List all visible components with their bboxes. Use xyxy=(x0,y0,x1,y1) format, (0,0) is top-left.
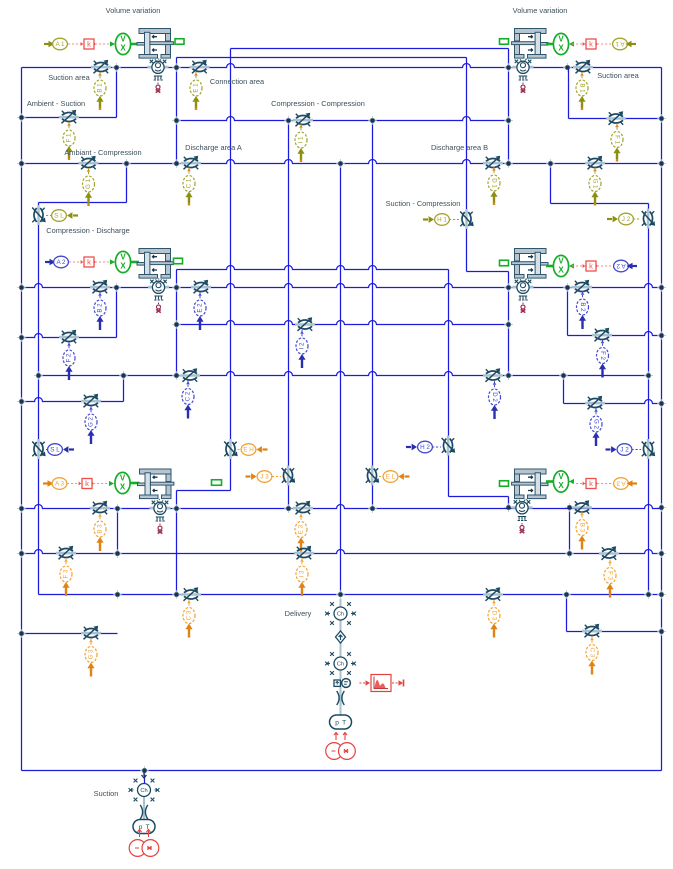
wire right bus xyxy=(661,68,663,771)
wire compression manifold row xyxy=(39,372,649,376)
svg-text:k: k xyxy=(589,479,593,488)
svg-text:k: k xyxy=(87,39,91,48)
svg-text:X: X xyxy=(558,43,564,52)
wire link row268 xyxy=(177,266,449,270)
wire chamber row2 xyxy=(22,284,662,288)
junction n55 xyxy=(17,629,26,638)
VX1 port xyxy=(131,43,139,46)
svg-text:k: k xyxy=(87,257,91,266)
svg-text:E 3: E 3 xyxy=(298,524,305,534)
svg-text:J 2: J 2 xyxy=(622,216,631,223)
junction n13 xyxy=(172,159,181,168)
wire link row490 xyxy=(177,490,231,492)
valve suction area R xyxy=(573,60,593,74)
svg-text:G 1: G 1 xyxy=(591,179,598,189)
arrowhead to VX3R xyxy=(569,479,574,484)
arrowhead to VX3 xyxy=(109,481,114,486)
svg-text:D 3: D 3 xyxy=(490,611,497,621)
junction n1 xyxy=(112,63,121,72)
atmosphere source suction atmosphere xyxy=(129,830,159,857)
wire link v116 a xyxy=(116,68,118,118)
orifice suction orifice xyxy=(140,804,148,820)
signal source G3 xyxy=(85,639,97,677)
wire ambient bus xyxy=(230,49,232,491)
piston cylinder cyl1L xyxy=(137,29,173,61)
wire compression row2 xyxy=(177,321,509,325)
wire v508 top xyxy=(508,49,510,164)
signal source J2o xyxy=(607,213,633,225)
valve suction area L xyxy=(91,60,111,74)
valve compression manifold 2L xyxy=(180,368,200,382)
valve suction manifold 3M xyxy=(294,546,314,560)
wire bottom bus xyxy=(22,770,662,772)
svg-text:F 1: F 1 xyxy=(66,133,73,142)
valve ambiant-compression 2 xyxy=(81,394,101,408)
svg-text:H 2: H 2 xyxy=(420,444,430,451)
wire delivery bus xyxy=(340,164,342,596)
junction n21 xyxy=(504,283,513,292)
signal source I1 xyxy=(295,124,307,162)
signal link k2R-VX xyxy=(572,265,586,267)
signal source H2 xyxy=(406,441,432,453)
svg-text:S L: S L xyxy=(50,446,60,453)
junction n11 xyxy=(17,159,26,168)
signal link A2-k xyxy=(69,261,83,263)
valve el valve xyxy=(366,466,380,486)
junction n19 xyxy=(112,283,121,292)
wire row401 L xyxy=(22,398,124,402)
junction n40 xyxy=(368,504,377,513)
gain block k3 xyxy=(79,479,95,489)
signal source J3 xyxy=(246,471,272,483)
arrowhead to VX1 xyxy=(110,41,115,46)
wire link row203 xyxy=(551,203,649,205)
wire row403 R xyxy=(564,400,662,404)
wire link v126 xyxy=(126,164,128,203)
svg-text:X: X xyxy=(120,261,126,270)
wire link row496 xyxy=(449,496,509,498)
valve suction-compression xyxy=(460,209,474,229)
signal source C3R xyxy=(586,637,598,675)
svg-text:B 2: B 2 xyxy=(579,302,586,312)
junction n34 xyxy=(17,397,26,406)
wire link v123 xyxy=(123,376,125,402)
junction n32 xyxy=(559,371,568,380)
signal source D2 xyxy=(489,381,501,419)
wire suction manifold row3 xyxy=(22,550,662,554)
gain block k2 xyxy=(81,257,97,267)
svg-text:Ch: Ch xyxy=(337,661,344,667)
wire suction chain links xyxy=(143,797,145,820)
junction n6 xyxy=(657,114,666,123)
signal link H1 link xyxy=(449,219,459,221)
signal source A3 xyxy=(52,478,67,490)
signal source C1 xyxy=(183,168,195,206)
wire link v116 c xyxy=(117,509,119,554)
signal source F2 xyxy=(63,342,75,380)
valve discharge area A xyxy=(181,156,201,170)
signal source B3 xyxy=(94,513,106,551)
wire delivery manifold row xyxy=(39,594,662,596)
svg-text:B 3: B 3 xyxy=(578,523,585,533)
signal link k3-VX xyxy=(93,483,111,485)
junction n23 xyxy=(657,283,666,292)
signal link A3R-k xyxy=(597,483,613,485)
wire ambient-suction row R xyxy=(569,118,662,120)
signal source B2 xyxy=(94,292,106,330)
valve connection area 2 xyxy=(191,280,211,294)
junction n14 xyxy=(336,159,345,168)
svg-text:V: V xyxy=(558,256,564,265)
junction n12 xyxy=(122,159,131,168)
svg-text:F 2: F 2 xyxy=(66,353,73,362)
signal source F3 xyxy=(60,558,72,596)
svg-text:Suction area: Suction area xyxy=(597,71,639,80)
pneumatic node Delivery chamber 2 xyxy=(325,652,356,675)
wire top link A xyxy=(231,48,509,50)
junction n35 xyxy=(657,399,666,408)
VX2 port xyxy=(131,261,139,264)
signal source E2 xyxy=(194,292,206,330)
svg-text:F 2: F 2 xyxy=(599,351,606,360)
pressure-temperature source suction pT source xyxy=(133,820,155,834)
junction n30 xyxy=(172,371,181,380)
valve connection area xyxy=(190,60,210,74)
signal source A1R xyxy=(613,38,628,50)
valve j3 valve xyxy=(282,466,296,486)
wire v568 xyxy=(568,68,570,119)
junction n27 xyxy=(17,333,26,342)
svg-text:X: X xyxy=(558,481,564,490)
junction n8 xyxy=(284,116,293,125)
wire link v176 top xyxy=(176,58,178,164)
valve ambiant-compression xyxy=(79,156,99,170)
input arrow A3R in xyxy=(633,482,638,484)
signal link k1R-VX xyxy=(572,43,586,45)
signal source D1 xyxy=(488,167,500,205)
pressure-temperature source delivery pT source xyxy=(330,715,352,729)
svg-text:H 1: H 1 xyxy=(437,216,447,223)
input arrow A2 in xyxy=(45,261,50,263)
piston cylinder cyl3R xyxy=(512,469,548,501)
input arrow A1 in xyxy=(44,43,49,45)
signal source F1 xyxy=(63,122,75,160)
signal source J2b xyxy=(606,444,632,456)
signal source H1 xyxy=(423,214,449,226)
junction n10 xyxy=(504,116,513,125)
signal source F1R xyxy=(611,124,623,162)
valve ambient bus valve xyxy=(224,439,238,459)
VX3R port xyxy=(546,480,553,483)
wire v448 xyxy=(448,270,450,497)
signal source E1 xyxy=(190,72,202,110)
svg-text:T: T xyxy=(342,719,346,726)
signal link A1R-k xyxy=(597,43,613,45)
check valve delivery check valve xyxy=(336,630,346,644)
svg-text:Delivery: Delivery xyxy=(285,609,312,618)
signal link EL link xyxy=(379,476,383,478)
pneumatic node Suction chamber xyxy=(129,779,160,802)
svg-text:E H: E H xyxy=(243,446,254,453)
wire compression-discharge bus L xyxy=(38,203,40,595)
valve suction area 3L xyxy=(90,501,110,515)
valve connection area 3 xyxy=(293,501,313,515)
wire ambient-suction row xyxy=(22,117,117,119)
signal link k1-VX xyxy=(95,43,112,45)
svg-text:X: X xyxy=(120,43,126,52)
pneumatic chamber Q1R xyxy=(513,59,534,92)
piston cylinder cyl2R xyxy=(512,249,548,281)
svg-text:A 2: A 2 xyxy=(56,259,66,266)
junction n56 xyxy=(140,766,149,775)
svg-text:C 3: C 3 xyxy=(588,648,595,658)
svg-text:B 3: B 3 xyxy=(97,524,104,534)
valve compression-discharge L xyxy=(32,205,46,225)
velocity-displacement transducer VX2 xyxy=(115,251,130,272)
wire link v116 b xyxy=(116,288,118,338)
signal link A3-k xyxy=(67,483,81,485)
signal source E3 xyxy=(295,514,307,552)
junction n53 xyxy=(657,590,666,599)
junction n2 xyxy=(172,63,181,72)
svg-text:F 3: F 3 xyxy=(606,571,613,580)
svg-text:Ambiant - Compression: Ambiant - Compression xyxy=(64,148,141,157)
signal source EH xyxy=(241,444,267,456)
svg-text:Suction area: Suction area xyxy=(48,73,90,82)
pneumatic chamber Q2 xyxy=(148,279,169,312)
signal link J2b link xyxy=(632,449,642,451)
signal source SLb xyxy=(48,444,74,456)
svg-text:Discharge area A: Discharge area A xyxy=(185,143,242,152)
signal source F2R xyxy=(597,340,609,378)
junction n49 xyxy=(172,590,181,599)
junction n15 xyxy=(504,159,513,168)
signal source D3 xyxy=(488,600,500,638)
valve compression-discharge 2L xyxy=(32,439,46,459)
signal source B1 xyxy=(94,72,106,110)
wire row337 L xyxy=(22,334,117,338)
signal source SL xyxy=(52,210,78,222)
wire v569 xyxy=(569,508,571,554)
suction feed arrow xyxy=(142,772,147,778)
junction n28 xyxy=(34,371,43,380)
wire suction-compression bus xyxy=(466,58,468,272)
pneumatic chamber Q1 xyxy=(148,59,169,92)
svg-text:C 2: C 2 xyxy=(185,391,192,401)
signal source A3R xyxy=(614,478,629,490)
valve compression-discharge 2R xyxy=(642,439,656,459)
signal link J2o link xyxy=(633,218,641,220)
svg-text:C 3: C 3 xyxy=(186,610,193,620)
signal source G2R xyxy=(590,408,602,446)
svg-text:A 1: A 1 xyxy=(615,40,625,47)
input arrow A3 in xyxy=(43,482,48,484)
junction n22 xyxy=(563,283,572,292)
junction n16 xyxy=(546,159,555,168)
VX3 port xyxy=(130,482,140,485)
svg-text:V: V xyxy=(120,252,126,261)
junction n46 xyxy=(565,549,574,558)
svg-text:V: V xyxy=(558,472,564,481)
valve suction-compression 2 xyxy=(442,436,456,456)
wire v550 xyxy=(550,164,552,204)
port block p2c xyxy=(500,260,509,266)
velocity-displacement transducer VX1 xyxy=(115,33,130,54)
junction n3 xyxy=(504,63,513,72)
velocity-displacement transducer VX1R xyxy=(553,33,568,54)
svg-text:Volume variation: Volume variation xyxy=(513,6,568,15)
signal link SLb link xyxy=(46,449,48,451)
junction n20 xyxy=(172,283,181,292)
signal source C3 xyxy=(183,600,195,638)
svg-text:k: k xyxy=(85,479,89,488)
valve discharge area B xyxy=(483,156,503,170)
valve compression-compression xyxy=(293,113,313,127)
VX2R port xyxy=(546,265,553,268)
signal link EH link xyxy=(238,449,242,451)
signal link H2 link xyxy=(432,446,441,448)
arrowhead to VX2R xyxy=(569,263,574,268)
port block p3c xyxy=(500,481,509,487)
junction n7 xyxy=(172,116,181,125)
junction n36 xyxy=(17,504,26,513)
svg-text:D 2: D 2 xyxy=(491,392,498,402)
signal source EL xyxy=(383,471,409,483)
valve suction area 2R xyxy=(572,280,592,294)
signal link SL link xyxy=(46,215,52,217)
wire v508 mid xyxy=(508,272,510,376)
valve ambient-suction 2 xyxy=(59,330,79,344)
piston cylinder cyl3L xyxy=(138,469,174,501)
svg-text:F 1: F 1 xyxy=(613,135,620,144)
valve delivery manifold 3R xyxy=(483,587,503,601)
valve suction manifold 3L xyxy=(56,546,76,560)
signal source B1R xyxy=(576,72,588,110)
port block p1b xyxy=(175,39,184,45)
wire row335 R xyxy=(568,332,662,336)
junction n47 xyxy=(657,549,666,558)
junction n4 xyxy=(563,63,572,72)
junction n45 xyxy=(113,549,122,558)
signal source A1 xyxy=(53,38,68,50)
gain block k3R xyxy=(583,479,599,489)
svg-text:G 3: G 3 xyxy=(88,649,95,659)
svg-text:V: V xyxy=(120,34,126,43)
wire row631 R xyxy=(567,631,662,633)
flow sensor delivery sensor xyxy=(334,679,350,688)
svg-text:Discharge area B: Discharge area B xyxy=(431,143,488,152)
wire v567 xyxy=(567,288,569,336)
wire ambient-compression row xyxy=(22,160,662,164)
velocity-displacement transducer VX2R xyxy=(553,255,568,276)
svg-text:k: k xyxy=(589,39,593,48)
input arrow A2R in xyxy=(633,265,638,267)
svg-text:k: k xyxy=(589,261,593,270)
svg-text:Compression - Discharge: Compression - Discharge xyxy=(46,226,129,235)
gain block k2R xyxy=(583,261,599,271)
valve ambiant-compression R xyxy=(585,156,605,170)
gain block k1 xyxy=(81,39,97,49)
valve delivery manifold 3L xyxy=(181,587,201,601)
junction n29 xyxy=(119,371,128,380)
wire suction area row xyxy=(22,64,662,68)
svg-text:J 3: J 3 xyxy=(260,473,269,480)
svg-text:A 3: A 3 xyxy=(55,480,65,487)
svg-text:D 1: D 1 xyxy=(490,178,497,188)
junction n54 xyxy=(657,627,666,636)
junction n42 xyxy=(565,503,574,512)
VX1R port xyxy=(546,43,553,46)
signal source G1 xyxy=(83,168,95,206)
wire v563 xyxy=(563,376,565,404)
svg-text:G 2: G 2 xyxy=(88,416,95,426)
junction n43 xyxy=(657,503,666,512)
svg-text:E L: E L xyxy=(386,473,396,480)
junction n24 xyxy=(172,320,181,329)
valve suction manifold 3R xyxy=(599,546,619,560)
svg-text:Volume variation: Volume variation xyxy=(106,6,161,15)
wire suction drop xyxy=(144,771,146,784)
valve ambient-suction xyxy=(59,110,79,124)
svg-text:V: V xyxy=(120,473,126,482)
junction n50 xyxy=(336,590,345,599)
svg-text:Ambient - Suction: Ambient - Suction xyxy=(27,99,85,108)
svg-text:I 1: I 1 xyxy=(298,136,305,143)
junction n51 xyxy=(562,590,571,599)
pneumatic chamber Q2R xyxy=(513,279,534,312)
signal source A2 xyxy=(54,256,69,268)
signal source A2R xyxy=(614,260,629,272)
wire compression-compression row xyxy=(177,117,509,121)
orifice delivery orifice xyxy=(337,690,345,706)
signal link A2R-k xyxy=(597,265,613,267)
svg-text:E 2: E 2 xyxy=(197,303,204,313)
svg-text:G 1: G 1 xyxy=(85,178,92,188)
svg-text:F 3: F 3 xyxy=(63,569,70,578)
svg-text:X: X xyxy=(558,265,564,274)
junction n33 xyxy=(644,371,653,380)
signal source F3R xyxy=(604,560,616,598)
valve compression-discharge R xyxy=(642,209,656,229)
svg-text:I 3: I 3 xyxy=(299,570,306,577)
wire v566 xyxy=(566,595,568,632)
wire link row271 xyxy=(467,271,509,273)
junction n25 xyxy=(504,320,513,329)
valve ambiant-compression 2R xyxy=(585,396,605,410)
svg-text:Ch: Ch xyxy=(140,788,147,794)
signal source I2 xyxy=(296,330,308,368)
junction n37 xyxy=(113,504,122,513)
signal source G1R xyxy=(589,168,601,206)
svg-text:B 1: B 1 xyxy=(578,83,585,93)
junction n48 xyxy=(113,590,122,599)
svg-text:S L: S L xyxy=(54,212,64,219)
signal source B2R xyxy=(577,291,589,329)
wire link v176 low xyxy=(176,491,178,595)
signal link J3 link xyxy=(272,476,281,478)
arrowhead to VX1R xyxy=(569,41,574,46)
junction n39 xyxy=(284,504,293,513)
junction n52 xyxy=(644,590,653,599)
input arrow A1R in xyxy=(632,43,637,45)
wire left bus xyxy=(21,68,23,771)
piston cylinder cyl1R xyxy=(512,29,548,61)
junction n9 xyxy=(368,116,377,125)
pneumatic chamber Q3 xyxy=(150,500,171,533)
svg-text:X: X xyxy=(120,482,126,491)
signal source C2 xyxy=(182,381,194,419)
svg-text:Compression - Compression: Compression - Compression xyxy=(271,99,365,108)
